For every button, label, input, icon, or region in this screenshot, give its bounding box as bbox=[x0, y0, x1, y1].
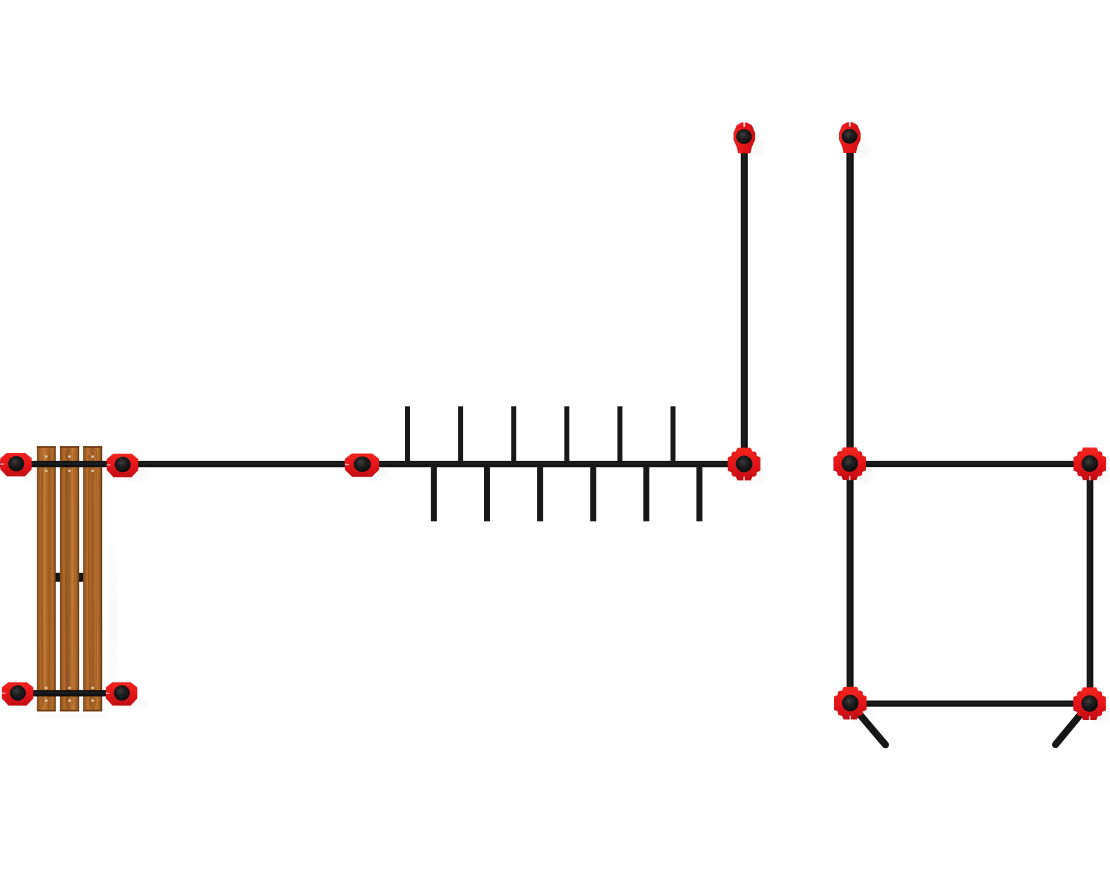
ladder up rungs bbox=[405, 406, 676, 463]
right pole top clamp bbox=[839, 122, 861, 153]
soft shadows bbox=[12, 143, 1110, 724]
left leg bbox=[853, 707, 886, 745]
bench plank 3 bbox=[83, 446, 102, 711]
square bottom bar bbox=[855, 701, 1085, 707]
bench clamp bottom-right bbox=[106, 682, 138, 705]
middle pole top clamp bbox=[734, 122, 756, 153]
ladder down rungs bbox=[431, 465, 703, 521]
right vertical pole bbox=[846, 148, 853, 458]
right leg bbox=[1056, 707, 1088, 745]
bench clamp top-left bbox=[0, 453, 32, 476]
square right pole bbox=[1087, 470, 1094, 698]
square top-right clamp bbox=[1074, 448, 1107, 481]
bench clamp bottom-left bbox=[2, 682, 34, 705]
square left pole bbox=[847, 470, 854, 698]
bench middle tie bar bbox=[42, 573, 98, 582]
ladder left clamp bbox=[345, 454, 379, 477]
square top bar bbox=[855, 461, 1085, 467]
ladder right cross clamp bbox=[728, 448, 761, 481]
bench bottom bar bbox=[6, 690, 133, 696]
middle vertical pole bbox=[741, 148, 748, 456]
bench plank 2 bbox=[60, 446, 79, 711]
square bottom-left clamp bbox=[834, 687, 867, 720]
bench screws bbox=[45, 455, 94, 702]
square top-left clamp bbox=[833, 447, 866, 480]
square bottom-right clamp bbox=[1073, 687, 1106, 720]
main horizontal bar bbox=[0, 461, 731, 467]
bench plank 1 bbox=[37, 446, 56, 711]
bench clamp top-right bbox=[107, 454, 139, 477]
